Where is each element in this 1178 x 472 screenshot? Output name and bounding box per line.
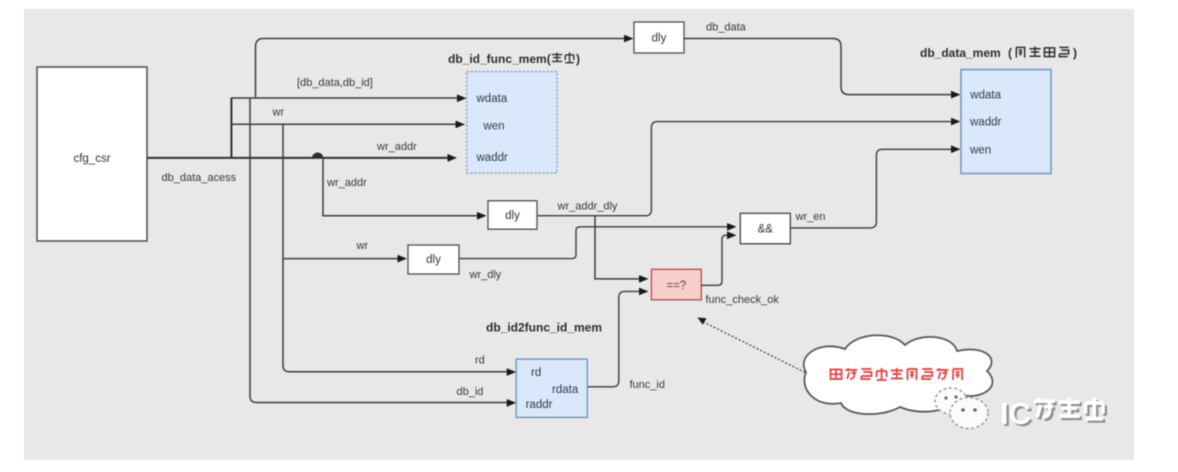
wire wr_addr branch to dly U2 bbox=[323, 158, 487, 220]
wire wr branch to dly U3 bbox=[283, 255, 407, 263]
svg-text:raddr: raddr bbox=[526, 399, 553, 411]
wire func_id (rdata to ==? input B) bbox=[587, 288, 648, 387]
title db_data_mem (final target) bbox=[920, 46, 1077, 60]
svg-text:wr: wr bbox=[356, 240, 369, 252]
svg-text:): ) bbox=[576, 52, 580, 66]
svg-text:wr_addr: wr_addr bbox=[376, 141, 417, 153]
wire db_data_acess main (cfg_csr to waddr of db_id_func_mem) bbox=[147, 154, 457, 162]
wire [db_data,db_id] to wdata bbox=[231, 94, 466, 102]
svg-text:db_id2func_id_mem: db_id2func_id_mem bbox=[486, 321, 602, 335]
svg-text:func_check_ok: func_check_ok bbox=[706, 294, 780, 306]
annotation cloud bbox=[804, 335, 993, 414]
wire wr_en (&& to wen of db_data_mem) bbox=[790, 145, 960, 228]
block cfg_csr bbox=[37, 67, 147, 241]
svg-text:[db_data,db_id]: [db_data,db_id] bbox=[297, 77, 373, 89]
svg-text:wdata: wdata bbox=[476, 93, 508, 105]
dashed annotation arrow from cloud to func_check_ok bbox=[698, 318, 806, 373]
wire wr_addr_dly branch to ==? input A bbox=[595, 216, 649, 283]
svg-text:wr_addr_dly: wr_addr_dly bbox=[557, 200, 618, 212]
svg-text:IC: IC bbox=[1000, 396, 1031, 431]
svg-text:wen: wen bbox=[482, 120, 504, 132]
block db_data_mem (final target memory) bbox=[961, 70, 1051, 174]
wire vertical riser at x=231 bbox=[230, 98, 232, 159]
svg-text:db_id: db_id bbox=[457, 386, 484, 398]
cloud text: match must pass to enable write (red) bbox=[831, 368, 963, 380]
svg-text:db_data_acess: db_data_acess bbox=[162, 172, 237, 184]
block dly U3 (wr delay) bbox=[408, 245, 459, 274]
wire db_data top run (riser + run to dly U1) bbox=[256, 35, 634, 98]
block dly U2 (wr_addr delay) bbox=[488, 201, 537, 229]
svg-text:rd: rd bbox=[531, 367, 541, 379]
svg-text:waddr: waddr bbox=[476, 152, 508, 164]
svg-text:wen: wen bbox=[969, 144, 991, 156]
svg-text:db_data_mem: db_data_mem bbox=[920, 46, 1001, 60]
svg-text:db_data: db_data bbox=[706, 22, 747, 34]
svg-text:==?: ==? bbox=[666, 280, 686, 292]
svg-text:): ) bbox=[1073, 46, 1077, 60]
title db_id_func_mem(virtual) bbox=[448, 52, 580, 66]
svg-text:func_id: func_id bbox=[630, 379, 665, 391]
watermark text IC world bbox=[1000, 396, 1105, 433]
block comparator ==? bbox=[651, 269, 701, 300]
wire func_check_ok (==? to && input B) bbox=[701, 231, 736, 285]
block dly U1 (db_data delay) bbox=[634, 22, 684, 53]
svg-text:cfg_csr: cfg_csr bbox=[73, 153, 110, 165]
svg-text:wdata: wdata bbox=[969, 89, 1001, 101]
svg-text:&&: && bbox=[758, 224, 774, 236]
svg-text:wr_dly: wr_dly bbox=[469, 269, 502, 281]
svg-text:rdata: rdata bbox=[552, 384, 579, 396]
svg-text:dly: dly bbox=[426, 254, 441, 266]
wire rd vertical + to rd port bbox=[283, 124, 516, 376]
wire db_id vertical + to raddr bbox=[250, 98, 516, 407]
svg-text:wr_addr: wr_addr bbox=[326, 177, 367, 189]
svg-text:(: ( bbox=[1008, 46, 1012, 60]
svg-text:waddr: waddr bbox=[969, 117, 1001, 129]
wire db_data (dly U1 to wdata of db_data_mem) bbox=[684, 39, 961, 99]
wire wr_dly (dly U3 to && input A) bbox=[459, 223, 737, 259]
svg-text:wr_en: wr_en bbox=[795, 211, 826, 223]
svg-text:dly: dly bbox=[505, 210, 520, 222]
svg-text:db_id_func_mem(: db_id_func_mem( bbox=[448, 52, 551, 66]
block db_id2func_id_mem bbox=[516, 359, 587, 417]
block AND gate && bbox=[740, 213, 790, 244]
svg-text:dly: dly bbox=[652, 33, 667, 45]
wire wr_addr_dly (dly U2 to waddr of db_data_mem) bbox=[537, 118, 961, 216]
svg-text:rd: rd bbox=[475, 355, 485, 367]
wire wr to wen of db_id_func_mem bbox=[231, 121, 465, 129]
svg-text:wr: wr bbox=[272, 107, 285, 119]
watermark logo bubbles bbox=[935, 388, 988, 429]
junction bump at wr_addr branch bbox=[312, 152, 324, 157]
block db_id_func_mem (dashed virtual memory) bbox=[467, 72, 557, 173]
